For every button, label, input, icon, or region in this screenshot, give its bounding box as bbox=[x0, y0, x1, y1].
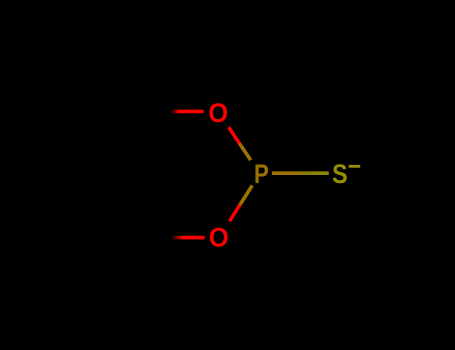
wire P-S bond bbox=[272, 171, 329, 175]
svg-text:O: O bbox=[208, 97, 228, 128]
svg-text:P: P bbox=[254, 160, 269, 190]
svg-text:O: O bbox=[209, 222, 229, 253]
wire C-O top (bond to upper oxygen) bbox=[160, 110, 204, 114]
wire O-P lower diagonal bond bbox=[230, 186, 253, 222]
svg-text:S: S bbox=[332, 160, 347, 190]
minus charge on S bbox=[349, 165, 361, 168]
wire O-P upper diagonal bond bbox=[229, 127, 251, 160]
wire C-O bottom (bond to lower oxygen) bbox=[160, 236, 205, 240]
